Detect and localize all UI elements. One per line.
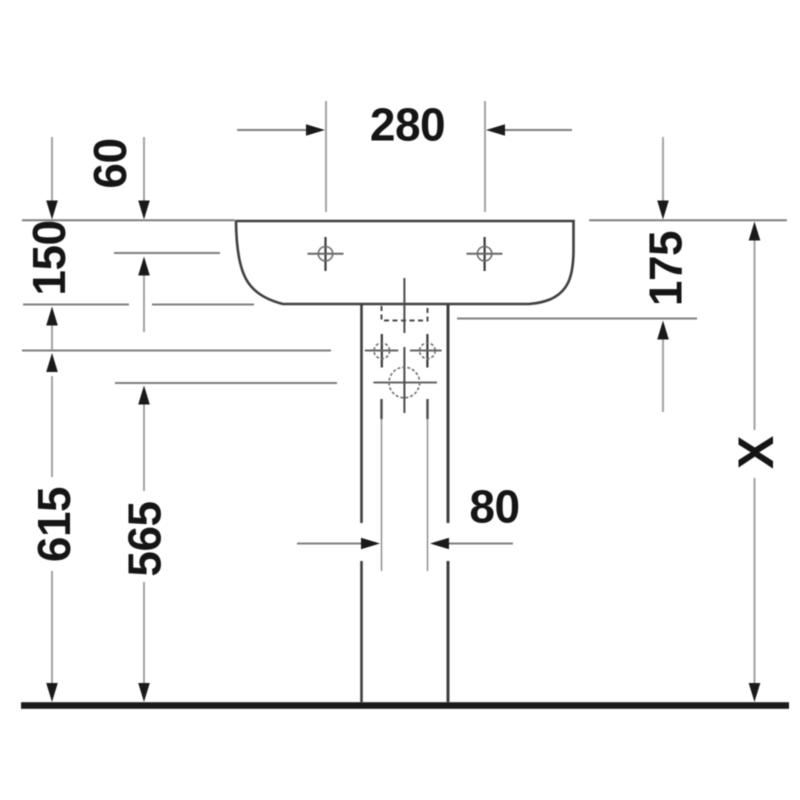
svg-text:175: 175 <box>640 231 692 306</box>
svg-text:280: 280 <box>370 99 445 151</box>
svg-text:60: 60 <box>84 138 136 188</box>
svg-text:615: 615 <box>28 487 80 562</box>
svg-text:150: 150 <box>23 220 75 295</box>
svg-text:565: 565 <box>119 501 171 576</box>
svg-text:X: X <box>728 436 784 469</box>
svg-text:80: 80 <box>469 481 519 533</box>
